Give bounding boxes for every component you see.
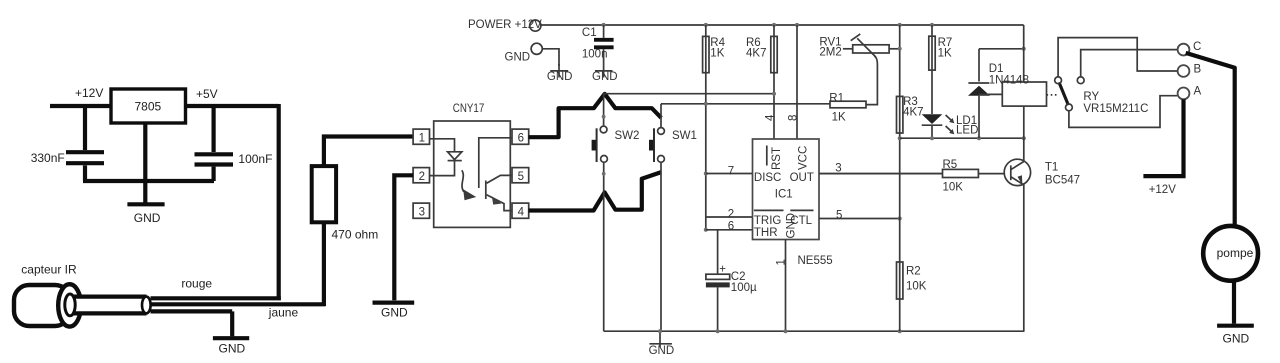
wire NO contact to C [1081,50,1178,77]
svg-text:5: 5 [518,171,524,183]
svg-text:GND: GND [592,71,618,83]
pin 3 [413,203,429,218]
svg-text:6: 6 [728,221,734,233]
svg-text:1K: 1K [938,48,952,60]
junction dots R4 line [704,172,708,176]
diode LED internal [430,139,455,152]
svg-text:100µ: 100µ [731,282,757,294]
wire sensor cable [70,295,146,315]
svg-text:330nF: 330nF [31,151,65,165]
svg-text:+12V: +12V [75,86,103,100]
svg-text:capteur IR: capteur IR [21,263,77,277]
svg-text:4: 4 [518,206,525,218]
svg-text:GND: GND [505,51,531,63]
svg-text:1K: 1K [832,112,846,124]
svg-text:jaune: jaune [268,306,299,320]
svg-text:T1: T1 [1045,162,1058,174]
wire +12V rail [50,104,112,108]
ground CNY17 pin2 [394,175,413,300]
svg-text:C1: C1 [582,27,597,39]
wire OUT pin 3 [819,173,943,175]
resistor R4 1K [704,23,708,27]
svg-text:3: 3 [835,162,841,174]
svg-text:GND: GND [649,345,675,357]
wire rouge [151,296,281,300]
wire vert [151,309,233,313]
svg-text:470 ohm: 470 ohm [332,228,379,242]
svg-text:LED: LED [956,125,978,137]
svg-text:+12V: +12V [1149,184,1177,196]
wire NC contact to B [1058,38,1177,77]
wire collector net [900,137,1024,139]
wire THR stub pin 6 [706,229,753,231]
pin 1 [413,129,429,144]
svg-text:SW1: SW1 [672,130,697,142]
svg-text:RST: RST [771,147,783,170]
svg-text:R2: R2 [906,266,921,278]
svg-text:BC547: BC547 [1045,175,1080,187]
wire C to pompe [1186,53,1235,226]
wire power rail [541,24,1024,26]
svg-text:GND: GND [1223,332,1250,346]
svg-text:7805: 7805 [135,100,162,114]
diode D1 1N4148 [978,49,980,82]
wire capacitor join [83,179,214,183]
resistor R5 10K [819,173,943,175]
svg-text:C: C [1193,41,1201,53]
transistor T1 BC547 [1004,159,1030,185]
terminal C [1178,44,1190,56]
wire pivot to A [1069,96,1177,128]
capacitor C2 100u [717,230,719,274]
resistor R2 10K [897,262,903,299]
svg-text:4: 4 [765,114,777,121]
svg-text:1K: 1K [710,48,724,60]
svg-text:GND: GND [219,342,246,356]
transistor internal [479,138,512,188]
relay RY VR15M211C coil [1023,25,1025,82]
regulator U 7805 [111,89,186,123]
svg-text:VR15M211C: VR15M211C [1083,103,1148,115]
pin 4 [512,203,529,218]
svg-text:1: 1 [419,132,425,144]
svg-text:10K: 10K [906,281,927,293]
arrow light [462,170,464,192]
wire A to +12V [1143,99,1183,176]
wire GND pin 1 [785,240,787,332]
resistor R3 4K7 with R2 line [898,23,902,27]
svg-text:NE555: NE555 [798,255,833,267]
svg-text:A: A [1194,86,1202,98]
svg-text:OUT: OUT [790,172,814,184]
pin 6 [512,129,529,144]
svg-text:4K7: 4K7 [903,106,923,118]
wire TRIG stub pin 2 [706,216,753,218]
svg-text:10K: 10K [943,181,964,193]
wire DISC stub pin 7 [706,173,753,175]
svg-text:GND: GND [786,213,798,239]
svg-text:2M2: 2M2 [819,47,841,59]
wire bottom rail [604,330,1025,332]
wire SW2 to RST net [604,93,774,95]
terminal A [1178,88,1190,100]
relay switch [1047,94,1058,96]
svg-text:RY: RY [1083,91,1099,103]
switch SW2 [603,94,605,126]
svg-text:8: 8 [788,115,800,121]
svg-text:IC1: IC1 [775,188,793,200]
motor pompe [1203,226,1258,281]
svg-text:D1: D1 [989,63,1004,75]
svg-text:GND: GND [547,71,573,83]
svg-text:DISC: DISC [754,172,781,184]
wire pin4 to SW1 [529,172,662,210]
capacitor C1 [602,23,606,27]
wire SW1 net [661,103,830,105]
switch SW1 [660,104,662,128]
diode LD1 LED [922,114,943,124]
svg-text:rouge: rouge [181,277,212,291]
svg-text:B: B [1194,64,1202,76]
resistor R6 4K7 [772,23,776,27]
pin 2 [413,168,429,183]
op-amp timer IC1 NE555 [753,139,820,240]
wire VCC line [795,23,799,27]
svg-text:2: 2 [419,171,425,183]
wire CTL pin 5 [819,218,900,220]
svg-text:pompe: pompe [1217,246,1254,260]
svg-text:VCC: VCC [798,146,810,170]
svg-text:GND: GND [134,211,161,225]
svg-text:GND: GND [381,306,408,320]
svg-text:7: 7 [728,165,734,177]
svg-text:6: 6 [518,132,524,144]
ground SW1 [659,331,661,347]
pin 5 [512,168,529,183]
ground 7805 [143,123,147,203]
svg-text:100n: 100n [582,49,608,61]
resistor R7 1K [930,23,934,27]
ground pompe [1232,281,1236,324]
svg-text:5: 5 [836,209,842,221]
svg-text:TRIG: TRIG [754,215,782,227]
wire jaune [151,302,326,306]
svg-text:CNY17: CNY17 [453,103,485,115]
capacitor 100nF [212,106,216,152]
svg-text:THR: THR [754,227,778,239]
svg-text:SW2: SW2 [615,130,640,142]
svg-text:3: 3 [419,206,425,218]
svg-text:100nF: 100nF [238,152,272,166]
capacitor 330nF [83,106,87,150]
svg-text:R5: R5 [943,159,958,171]
svg-text:+: + [719,263,726,275]
resistor 470 ohm [324,137,413,169]
wire +5V [186,104,279,108]
svg-text:R1: R1 [829,93,844,105]
svg-text:4K7: 4K7 [746,48,766,60]
ground vert [213,336,249,340]
svg-text:+5V: +5V [196,87,218,101]
terminal B [1178,65,1190,77]
resistor R1 1K [830,101,866,108]
svg-text:2: 2 [728,208,734,220]
svg-text:1N4148: 1N4148 [989,75,1029,87]
wire pin6 to SW1 [529,94,662,137]
